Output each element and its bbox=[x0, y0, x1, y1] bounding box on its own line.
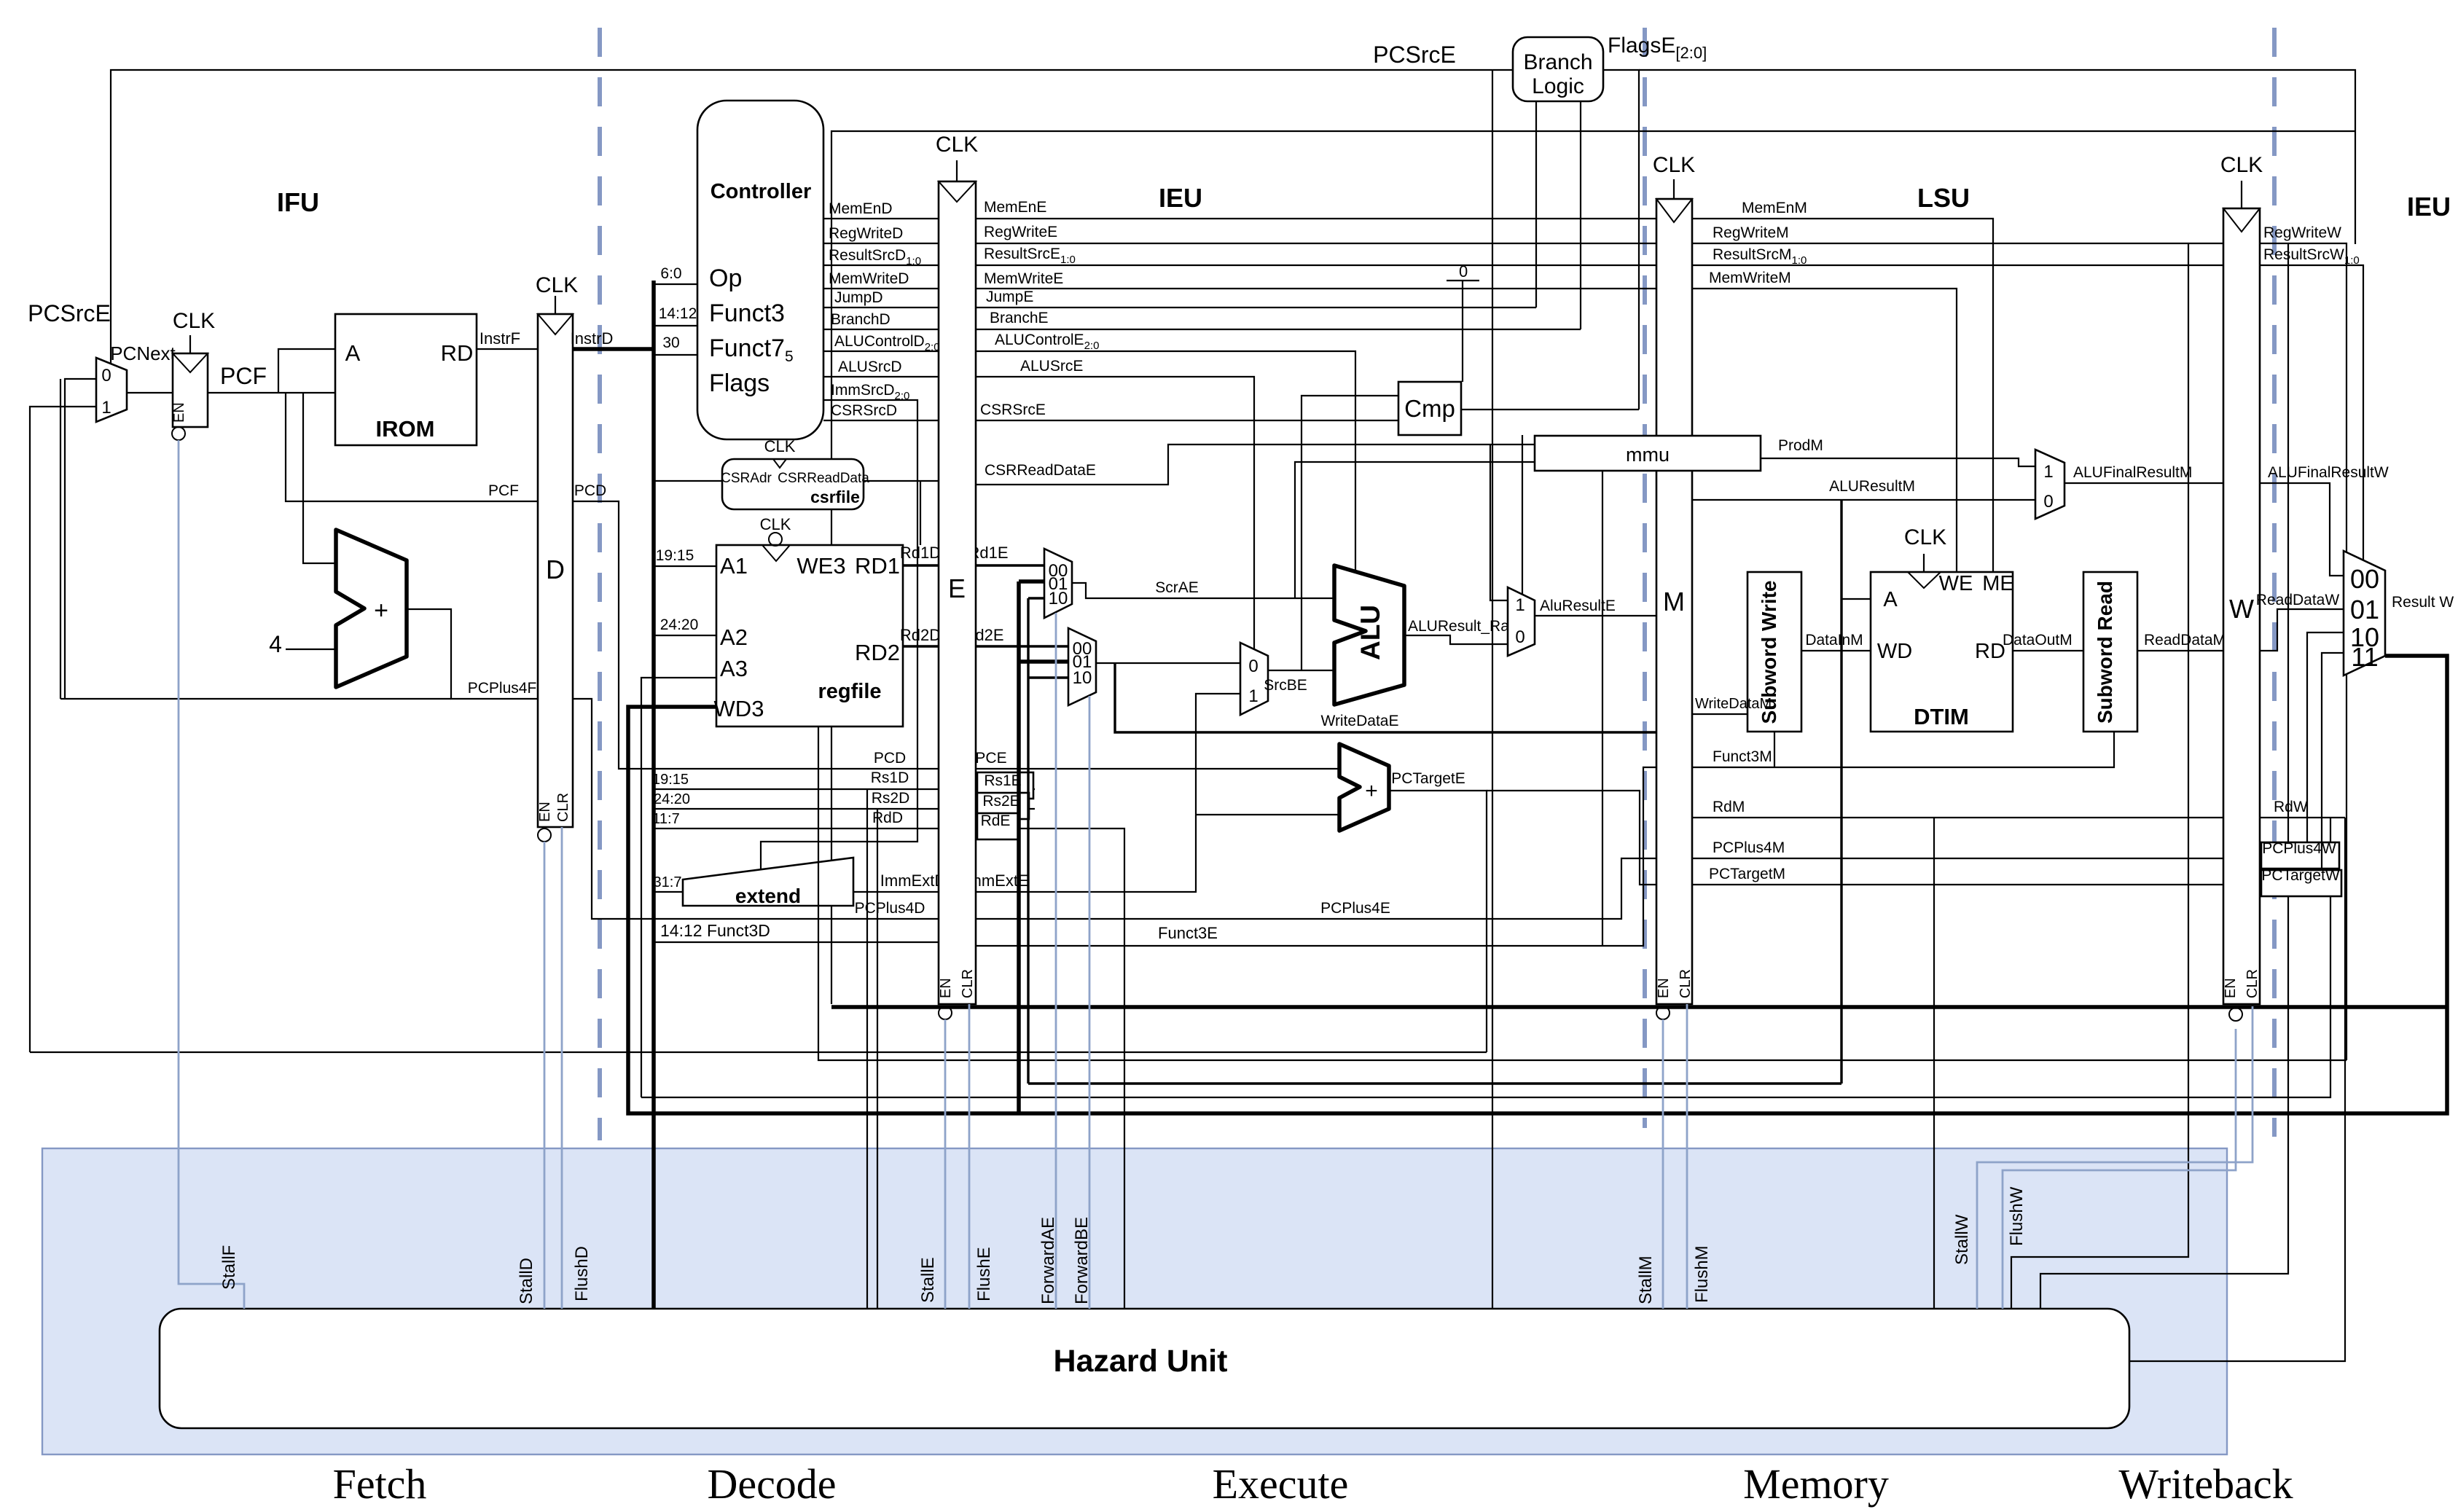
svg-text:PCSrcE: PCSrcE bbox=[28, 300, 111, 326]
svg-text:Op: Op bbox=[709, 265, 742, 292]
svg-text:MemWriteM: MemWriteM bbox=[1709, 270, 1791, 286]
bus ALUResultM forwarding to muxes bbox=[1028, 1082, 1841, 1084]
svg-text:10: 10 bbox=[1049, 589, 1068, 608]
svg-text:StallD: StallD bbox=[517, 1258, 536, 1304]
svg-text:CLR: CLR bbox=[555, 793, 571, 822]
svg-text:ScrAE: ScrAE bbox=[1155, 579, 1199, 596]
svg-text:CLR: CLR bbox=[2244, 969, 2261, 998]
wire CSRReadData to E register bbox=[864, 480, 939, 482]
svg-text:Subword Read: Subword Read bbox=[2094, 581, 2116, 724]
wire ForwardAE bbox=[1055, 613, 1057, 1309]
svg-text:CSRAdr: CSRAdr bbox=[721, 471, 772, 486]
svg-text:FlushD: FlushD bbox=[572, 1246, 592, 1301]
wire StallD bbox=[544, 842, 546, 1309]
svg-text:ME: ME bbox=[1982, 572, 2014, 595]
box mmu bbox=[1535, 436, 1761, 471]
svg-text:CLR: CLR bbox=[960, 969, 976, 998]
wire CSRAdr input bbox=[654, 480, 722, 482]
wire PCTargetE into mux input 1 bbox=[30, 407, 96, 1052]
svg-text:RdM: RdM bbox=[1713, 799, 1745, 815]
wire PCPlus4F (adder out, loops to mux and D register) bbox=[407, 609, 538, 699]
svg-text:CLR: CLR bbox=[1678, 969, 1694, 998]
pipeline register M bbox=[1656, 199, 1692, 1004]
wire RdW bbox=[2260, 817, 2345, 818]
wire ALUFinalResultW bbox=[2260, 483, 2344, 576]
svg-text:19:15: 19:15 bbox=[652, 772, 689, 788]
wire PCTargetE to M register bbox=[1487, 791, 1656, 885]
wire ResultSrcW 1:0 bbox=[2260, 265, 2363, 561]
svg-text:PCE: PCE bbox=[975, 750, 1006, 767]
wire select into AluResult mux bbox=[1522, 435, 1523, 595]
box Subword Read bbox=[2083, 572, 2137, 732]
svg-text:CSRReadDataE: CSRReadDataE bbox=[985, 462, 1096, 479]
wire PCSrcE (top long wire from Branch Logic to PC mux select) bbox=[111, 70, 1513, 364]
svg-text:Result W: Result W bbox=[2392, 594, 2454, 611]
wire FlushD bbox=[561, 827, 563, 1309]
svg-text:10: 10 bbox=[1073, 668, 1092, 688]
wire ImmSrcD into extend top bbox=[761, 400, 917, 869]
wire MemWriteM bbox=[1692, 289, 1957, 572]
wire ALUResultM forwarding drop bbox=[1840, 500, 1842, 1084]
mux PC source (0/1) bbox=[96, 358, 127, 422]
adder PCTarget bbox=[1339, 744, 1389, 831]
svg-text:M: M bbox=[1663, 587, 1685, 616]
svg-text:4: 4 bbox=[269, 631, 282, 657]
wire Rs1D drop to hazard bbox=[866, 789, 868, 1309]
svg-text:E: E bbox=[948, 573, 966, 603]
box Cmp bbox=[1398, 382, 1461, 435]
wire ALUResult_Raw bbox=[1404, 635, 1508, 644]
svg-text:EN: EN bbox=[2223, 978, 2239, 998]
svg-text:31:7: 31:7 bbox=[654, 874, 682, 890]
svg-text:30: 30 bbox=[662, 334, 679, 351]
svg-text:ALU: ALU bbox=[1355, 605, 1385, 660]
wire DataOutM bbox=[2013, 650, 2083, 651]
wire JumpE riser into Branch Logic bbox=[1535, 101, 1537, 308]
wire PCTargetE return (to PC mux) bbox=[30, 1051, 1487, 1053]
wire RdE (boxed label) bbox=[976, 829, 1124, 1309]
svg-text:Writeback: Writeback bbox=[2118, 1460, 2293, 1508]
svg-text:CSRSrcD: CSRSrcD bbox=[831, 402, 897, 419]
regfile box bbox=[716, 545, 903, 726]
ALU bbox=[1334, 565, 1404, 705]
svg-text:IROM: IROM bbox=[376, 416, 435, 442]
wire Result W (thick feedback to WD3) bbox=[628, 656, 2447, 1113]
wire JumpD bbox=[823, 307, 939, 308]
section boundary line IEU top bbox=[831, 131, 2355, 1004]
svg-text:RdW: RdW bbox=[2274, 799, 2308, 815]
wire ResultW into ForwardB 01 bbox=[1019, 659, 1068, 664]
wire PCF riser into IROM A bbox=[278, 349, 335, 393]
svg-text:PCSrcE: PCSrcE bbox=[1373, 42, 1456, 68]
svg-text:CLK: CLK bbox=[173, 309, 215, 333]
wire WE3 drop bbox=[920, 481, 921, 545]
memory IROM bbox=[335, 314, 477, 445]
wire PCPlus4E bbox=[976, 858, 1656, 919]
wire StallM bbox=[1662, 1019, 1664, 1309]
svg-text:DataInM: DataInM bbox=[1805, 632, 1863, 649]
wire InstrF bbox=[477, 348, 538, 350]
wire RegWriteM bbox=[1692, 243, 2223, 244]
svg-text:CLK: CLK bbox=[1904, 525, 1946, 549]
wire CSRReadDataE (thick) bbox=[976, 444, 1535, 485]
wire PCF drop to PC+4 adder bbox=[303, 393, 336, 563]
svg-text:PCNext: PCNext bbox=[110, 342, 176, 364]
svg-text:extend: extend bbox=[735, 885, 801, 907]
svg-text:14:12 Funct3D: 14:12 Funct3D bbox=[660, 921, 770, 940]
svg-text:Execute: Execute bbox=[1213, 1460, 1349, 1508]
svg-text:CLK: CLK bbox=[1653, 153, 1695, 177]
wire PCTargetW (boxed label) bbox=[2260, 653, 2344, 885]
svg-text:Cmp: Cmp bbox=[1404, 395, 1455, 422]
svg-text:Funct75: Funct75 bbox=[709, 334, 794, 365]
wire ALUResultM into ForwardB 10 bbox=[1028, 676, 1068, 678]
wire MemEnD bbox=[823, 218, 939, 219]
svg-text:ImmExtD: ImmExtD bbox=[880, 871, 946, 890]
svg-text:ALUSrcE: ALUSrcE bbox=[1020, 358, 1083, 375]
box Subword Write bbox=[1747, 572, 1801, 732]
svg-text:CLK: CLK bbox=[2220, 153, 2263, 177]
svg-text:01: 01 bbox=[2350, 595, 2379, 624]
svg-text:MemWriteE: MemWriteE bbox=[984, 270, 1063, 287]
wire Funct3D (14:12) bbox=[654, 941, 939, 943]
svg-text:1: 1 bbox=[101, 398, 111, 418]
svg-text:MemWriteD: MemWriteD bbox=[829, 270, 909, 287]
svg-text:A3: A3 bbox=[720, 656, 748, 681]
svg-text:D: D bbox=[546, 555, 565, 584]
wire BranchE riser into Branch Logic bbox=[1580, 101, 1581, 329]
wire ForwardBE bbox=[1089, 696, 1091, 1309]
svg-text:+: + bbox=[1365, 779, 1378, 803]
svg-text:JumpD: JumpD bbox=[834, 289, 883, 306]
wire ForwardB out to SrcB mux bbox=[1096, 662, 1240, 664]
wire AluResultE bbox=[1535, 615, 1656, 616]
wire RegWriteE bbox=[976, 243, 1656, 244]
svg-text:WE3: WE3 bbox=[796, 553, 845, 579]
wire ImmExtE branch to PCTarget adder bbox=[1196, 814, 1339, 815]
wire Rs2D (24:20) bbox=[654, 808, 939, 810]
svg-text:RD: RD bbox=[1975, 640, 2005, 663]
svg-text:ALUResultM: ALUResultM bbox=[1829, 478, 1915, 495]
svg-text:ForwardAE: ForwardAE bbox=[1038, 1217, 1058, 1304]
svg-text:DTIM: DTIM bbox=[1914, 704, 1969, 729]
wire mmu select from Funct3E bbox=[1602, 471, 1603, 946]
wire Cmp out (flags) bbox=[1461, 409, 1639, 410]
svg-text:A: A bbox=[345, 340, 361, 366]
svg-text:StallF: StallF bbox=[219, 1245, 239, 1290]
svg-text:PCTargetM: PCTargetM bbox=[1709, 866, 1785, 882]
svg-text:BranchE: BranchE bbox=[990, 310, 1049, 326]
svg-text:Funct3M: Funct3M bbox=[1713, 748, 1772, 765]
svg-text:PCD: PCD bbox=[574, 482, 606, 499]
wire PCPlus4F into mux input 0 bbox=[65, 379, 96, 699]
svg-text:PCPlus4E: PCPlus4E bbox=[1320, 900, 1390, 917]
svg-text:MemEnE: MemEnE bbox=[984, 199, 1046, 216]
svg-text:Funct3: Funct3 bbox=[709, 299, 785, 327]
wire RdW return to regfile A3 bbox=[641, 818, 2330, 1097]
svg-text:ALUResult_Raw: ALUResult_Raw bbox=[1408, 618, 1521, 635]
svg-text:ProdM: ProdM bbox=[1778, 437, 1823, 454]
wire ImmExtD bbox=[853, 891, 939, 893]
svg-text:EN: EN bbox=[537, 802, 553, 822]
svg-text:1: 1 bbox=[1248, 686, 1258, 706]
wire Rd2D bbox=[903, 645, 939, 647]
pipeline register W bbox=[2223, 208, 2260, 1004]
wire ResultW into ForwardA 01 bbox=[1019, 579, 1044, 584]
svg-text:PCPlus4M: PCPlus4M bbox=[1713, 839, 1785, 856]
svg-text:mmu: mmu bbox=[1626, 444, 1670, 466]
bus InstrD vertical (taps 6:0,14:12,30,19:15,24:20,11:7,31:7,14:12) bbox=[651, 281, 656, 1309]
wire ALUResultM bbox=[1692, 499, 2035, 501]
wire Rd1D bbox=[903, 564, 939, 566]
svg-text:Flags: Flags bbox=[709, 369, 770, 397]
pipeline register E bbox=[939, 181, 976, 1004]
svg-text:6:0: 6:0 bbox=[660, 265, 681, 282]
wire CSRSrcE bbox=[976, 420, 1398, 421]
wire RdM bbox=[1692, 817, 2223, 818]
svg-text:WD: WD bbox=[1877, 640, 1912, 663]
wire RegWriteW return to regfile WE3 bbox=[818, 726, 2347, 1060]
wire PCD bbox=[573, 501, 939, 769]
svg-text:MemEnD: MemEnD bbox=[829, 200, 893, 217]
svg-text:WriteDataM: WriteDataM bbox=[1695, 696, 1772, 712]
tap 6:0 to controller Op bbox=[654, 283, 697, 285]
wire CSRReadDataE branch into AluResult mux 1 bbox=[1490, 444, 1508, 600]
svg-text:WD3: WD3 bbox=[714, 696, 764, 721]
svg-text:+: + bbox=[374, 597, 388, 624]
wire StallF bbox=[179, 440, 244, 1309]
wire SrcBE up into Cmp bbox=[1302, 396, 1398, 670]
svg-text:FlushW: FlushW bbox=[2007, 1186, 2027, 1246]
memory DTIM bbox=[1871, 572, 2013, 732]
wire RdW to hazard right bbox=[2129, 818, 2345, 1361]
wire FlushW bbox=[2003, 1029, 2236, 1309]
tap 30 to controller Funct7 bbox=[654, 354, 697, 356]
wire A2 input (24:20) bbox=[654, 635, 716, 636]
svg-text:ReadDataM: ReadDataM bbox=[2144, 632, 2226, 649]
wire Funct3E bbox=[976, 767, 1656, 946]
svg-text:Rd1D: Rd1D bbox=[900, 544, 941, 562]
wire ALUSrcE bbox=[976, 377, 1254, 650]
svg-text:PCPlus4F: PCPlus4F bbox=[468, 680, 537, 697]
svg-text:ALUFinalResultW: ALUFinalResultW bbox=[2268, 464, 2389, 481]
svg-text:WE: WE bbox=[1939, 572, 1973, 595]
wire PCF bbox=[208, 392, 335, 393]
svg-text:11:7: 11:7 bbox=[652, 811, 679, 827]
svg-text:A2: A2 bbox=[720, 624, 748, 650]
mux SrcB (0/1) bbox=[1240, 643, 1268, 715]
mux ALUFinalResult (1/0) bbox=[2035, 450, 2064, 519]
wire RdD (11:7) bbox=[654, 828, 939, 829]
csrfile box bbox=[722, 459, 864, 509]
svg-text:PCF: PCF bbox=[488, 482, 519, 499]
wire JumpE bbox=[976, 307, 1536, 308]
svg-text:CSRReadData: CSRReadData bbox=[778, 471, 869, 486]
wire ReadDataM bbox=[2137, 650, 2223, 651]
svg-text:24:20: 24:20 bbox=[660, 616, 699, 633]
svg-text:StallW: StallW bbox=[1952, 1214, 1972, 1265]
wire ALUSrcD bbox=[823, 376, 939, 377]
wire PCSrcE drop to hazard unit bbox=[1492, 70, 1493, 1309]
svg-text:W: W bbox=[2229, 594, 2254, 624]
wire FlushM bbox=[1686, 1004, 1688, 1309]
svg-text:24:20: 24:20 bbox=[654, 791, 690, 807]
svg-text:FlushE: FlushE bbox=[974, 1247, 994, 1301]
svg-text:0: 0 bbox=[1248, 657, 1258, 676]
svg-text:StallE: StallE bbox=[918, 1257, 938, 1303]
wire StallW bbox=[1977, 1006, 2252, 1309]
svg-text:Hazard Unit: Hazard Unit bbox=[1054, 1344, 1228, 1379]
svg-text:IEU: IEU bbox=[2407, 192, 2451, 222]
svg-text:ALUFinalResultM: ALUFinalResultM bbox=[2073, 464, 2192, 481]
svg-text:Rs2E: Rs2E bbox=[982, 793, 1019, 810]
svg-text:RegWriteD: RegWriteD bbox=[829, 225, 903, 242]
svg-text:CLK: CLK bbox=[760, 515, 791, 533]
wire A3 input from RdW bbox=[641, 678, 716, 1097]
mux ForwardA (00/01/10) bbox=[1044, 549, 1072, 618]
wire ALUResultM into ForwardA 10 bbox=[1028, 597, 1044, 599]
svg-text:JumpE: JumpE bbox=[986, 289, 1033, 305]
svg-text:ALUSrcD: ALUSrcD bbox=[838, 359, 902, 375]
wire ResultSrcD 1:0 bbox=[823, 265, 939, 266]
wire Rd2E bbox=[976, 645, 1068, 647]
wire RegWriteW to hazard bbox=[2040, 243, 2288, 1309]
svg-text:Rs1D: Rs1D bbox=[871, 769, 909, 786]
wire DataInM bbox=[1801, 650, 1871, 651]
wire ALUFinalResultM bbox=[2064, 482, 2223, 484]
mux ForwardB (00/01/10) bbox=[1068, 628, 1096, 705]
Hazard Unit box bbox=[160, 1309, 2129, 1428]
svg-text:LSU: LSU bbox=[1917, 183, 1970, 213]
wire Rs1E (boxed label) bbox=[976, 788, 1035, 790]
mux AluResult (1/0) bbox=[1508, 587, 1535, 656]
svg-text:CSRSrcE: CSRSrcE bbox=[980, 401, 1046, 418]
Branch Logic box bbox=[1513, 37, 1603, 101]
svg-text:RD: RD bbox=[441, 340, 474, 366]
wire ALUResultM into DTIM A bbox=[1841, 598, 1871, 600]
svg-text:Logic: Logic bbox=[1532, 74, 1584, 98]
pipeline register D bbox=[538, 314, 573, 827]
svg-text:ReadDataW: ReadDataW bbox=[2256, 592, 2340, 608]
svg-text:csrfile: csrfile bbox=[810, 487, 860, 506]
wire Rs2E (boxed label) bbox=[976, 808, 1035, 810]
wire Rd1E bbox=[976, 564, 1044, 566]
stage separator dashed line Execute/Memory bbox=[1643, 28, 1647, 1128]
wire ScrAE up into mmu bbox=[1295, 462, 1535, 598]
wire PCTargetE (adder out) bbox=[1389, 791, 1487, 1052]
wire CSRSrcD bbox=[823, 420, 939, 421]
svg-text:MemEnM: MemEnM bbox=[1742, 200, 1807, 216]
stage separator dashed line Memory/Writeback bbox=[2272, 28, 2277, 1137]
svg-text:RegWriteM: RegWriteM bbox=[1713, 224, 1789, 241]
svg-text:ForwardBE: ForwardBE bbox=[1072, 1217, 1092, 1304]
svg-text:CLK: CLK bbox=[764, 437, 796, 455]
controller box bbox=[697, 101, 823, 439]
svg-text:EN: EN bbox=[1656, 978, 1672, 998]
wire MemWriteE bbox=[976, 288, 1656, 289]
svg-text:RegWriteW: RegWriteW bbox=[2263, 224, 2341, 241]
wire RegWriteW bbox=[2260, 243, 2347, 1060]
register PC (F) bbox=[173, 353, 208, 427]
wire ScrAE (ForwardA out to ALU) bbox=[1072, 583, 1334, 598]
svg-text:DataOutM: DataOutM bbox=[2003, 632, 2073, 649]
mux Result (00/01/10/11) bbox=[2344, 551, 2385, 675]
svg-text:0: 0 bbox=[101, 366, 111, 385]
svg-text:RegWriteE: RegWriteE bbox=[984, 224, 1057, 240]
wire PCTargetM bbox=[1692, 884, 2223, 885]
svg-text:00: 00 bbox=[2350, 564, 2379, 594]
svg-text:InstrD: InstrD bbox=[571, 329, 614, 348]
svg-text:CLK: CLK bbox=[936, 133, 978, 157]
svg-text:Controller: Controller bbox=[711, 180, 812, 203]
svg-text:11: 11 bbox=[2351, 642, 2378, 672]
svg-text:19:15: 19:15 bbox=[656, 547, 694, 564]
svg-text:1: 1 bbox=[2043, 462, 2053, 482]
svg-text:0: 0 bbox=[1459, 262, 1468, 281]
wire StallE bbox=[944, 1019, 947, 1309]
svg-text:StallM: StallM bbox=[1636, 1256, 1656, 1304]
svg-text:Memory: Memory bbox=[1743, 1460, 1889, 1508]
wire FlushE bbox=[968, 1004, 971, 1309]
wire FlagsE from Cmp up to Branch Logic bbox=[1603, 70, 1639, 410]
svg-text:SrcBE: SrcBE bbox=[1264, 677, 1307, 694]
svg-text:PCD: PCD bbox=[874, 750, 906, 767]
svg-text:Decode: Decode bbox=[707, 1460, 836, 1508]
wire ALUControlD 2:0 bbox=[823, 350, 939, 352]
svg-text:Rd2D: Rd2D bbox=[900, 626, 941, 644]
svg-text:EN: EN bbox=[171, 402, 187, 423]
wire PCPlus4W (boxed label) bbox=[2260, 632, 2344, 858]
svg-text:PCPlus4W: PCPlus4W bbox=[2262, 840, 2336, 857]
svg-text:regfile: regfile bbox=[818, 680, 881, 703]
svg-text:PCTargetW: PCTargetW bbox=[2261, 867, 2340, 884]
svg-text:Rs1E: Rs1E bbox=[984, 772, 1021, 789]
wire WriteDataM bbox=[1692, 713, 1747, 715]
wire RegWriteD bbox=[823, 243, 939, 244]
svg-text:1: 1 bbox=[1515, 595, 1524, 615]
extend unit bbox=[683, 858, 853, 906]
wire PCE bbox=[976, 768, 1339, 769]
section bottom bus line bbox=[831, 1005, 2447, 1009]
svg-text:EN: EN bbox=[938, 978, 954, 998]
wire ResultSrcE 1:0 bbox=[976, 265, 1656, 266]
svg-text:RdE: RdE bbox=[981, 812, 1011, 829]
svg-text:RD1: RD1 bbox=[855, 553, 900, 579]
wire SrcBE (SrcB mux out to ALU) bbox=[1268, 670, 1334, 671]
adder PC+4 bbox=[336, 530, 407, 687]
svg-text:IEU: IEU bbox=[1159, 183, 1202, 213]
wire Funct3M bbox=[1692, 732, 2114, 767]
wire MemEnE bbox=[976, 218, 1656, 219]
wire Rs1D (19:15) bbox=[654, 788, 939, 790]
wire ImmExtE bbox=[976, 694, 1240, 892]
svg-text:PCPlus4D: PCPlus4D bbox=[855, 900, 925, 917]
svg-text:IFU: IFU bbox=[277, 187, 319, 217]
wire top-right rail to RegWriteW bbox=[1639, 70, 2355, 244]
svg-text:Rs2D: Rs2D bbox=[872, 790, 910, 807]
wire A1 input (19:15) bbox=[654, 565, 716, 567]
wire InstrD (thick bus) bbox=[573, 347, 654, 351]
svg-text:PCF: PCF bbox=[220, 363, 267, 389]
hazard band (blue region) bbox=[42, 1148, 2227, 1454]
bus ResultW riser to forward muxes bbox=[1017, 581, 1021, 1113]
wire WriteDataE (thick) bbox=[1115, 663, 1656, 732]
wire RdM drop to hazard bbox=[1933, 818, 1935, 1309]
wire ReadDataW bbox=[2260, 609, 2344, 651]
wire Rs2D drop to hazard bbox=[877, 809, 878, 1309]
wire PCPlus4D bbox=[573, 699, 939, 919]
wire ResultSrcM 1:0 bbox=[1692, 265, 2223, 266]
